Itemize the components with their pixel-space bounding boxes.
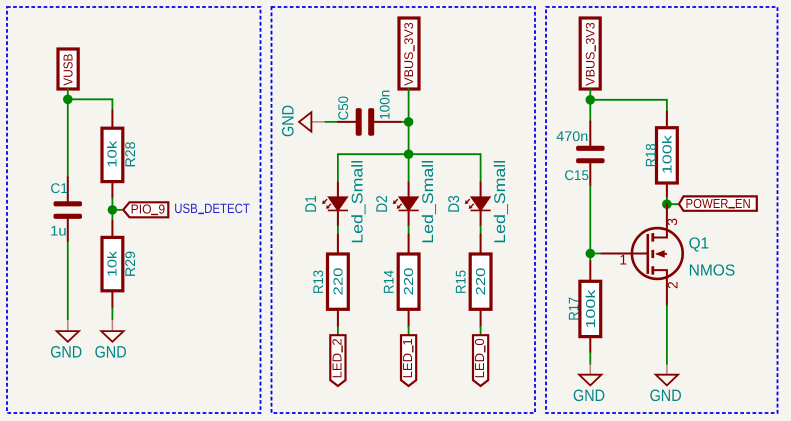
svg-text:R17: R17: [566, 297, 582, 321]
wire VBUS_3V3 down through junctions: [408, 89, 410, 154]
svg-text:R13: R13: [310, 270, 326, 294]
power symbol VBUS_3V3 (middle): [399, 18, 419, 89]
junction C: [404, 117, 414, 127]
capacitor C50: [335, 90, 409, 136]
body connection with arrow: [657, 253, 667, 255]
svg-text:R29: R29: [122, 251, 138, 277]
wire C15 to junction F: [589, 186, 591, 261]
svg-text:POWER_EN: POWER_EN: [686, 196, 751, 211]
hierarchical label POWER_EN: [679, 196, 757, 211]
right dashed group box: [546, 7, 778, 413]
resistor R15: [453, 234, 491, 326]
svg-text:GND: GND: [279, 105, 297, 137]
LED D3: [446, 160, 509, 244]
svg-text:GND: GND: [573, 387, 605, 405]
wire VBUS_3V3 down to C15: [589, 89, 591, 121]
svg-text:VUSB: VUSB: [60, 54, 75, 86]
wire Q1 source to GND: [666, 305, 668, 364]
svg-text:PIO_9: PIO_9: [131, 202, 166, 217]
svg-text:GND: GND: [95, 344, 127, 362]
resistor R14: [381, 234, 419, 326]
left dashed group box: [7, 7, 261, 413]
wire D2 to R14: [408, 226, 410, 234]
svg-text:R28: R28: [122, 141, 138, 167]
wire D1 to R13: [337, 226, 339, 234]
svg-text:USB_DETECT: USB_DETECT: [174, 201, 250, 216]
wire to D2: [408, 154, 410, 182]
wire junction to R28 top: [68, 99, 113, 110]
svg-text:NMOS: NMOS: [689, 262, 736, 279]
LED D2: [374, 160, 437, 244]
svg-text:GND: GND: [650, 387, 682, 405]
junction B: [108, 205, 118, 215]
hierarchical label LED_2: [329, 335, 345, 386]
resistor R17: [566, 261, 601, 352]
svg-text:D2: D2: [374, 195, 391, 213]
ground symbol (under R29): [95, 320, 127, 362]
wire junction F to gate: [590, 253, 600, 255]
svg-text:470n: 470n: [556, 128, 588, 144]
svg-text:220: 220: [473, 268, 488, 296]
wire R14 to LED_1: [408, 327, 410, 336]
wire LED bus: [338, 153, 481, 155]
junction G: [662, 199, 672, 209]
junction F: [586, 249, 596, 259]
svg-text:R14: R14: [381, 270, 397, 294]
resistor R13: [310, 234, 348, 326]
svg-text:220: 220: [331, 268, 346, 296]
svg-text:1: 1: [619, 252, 627, 268]
wire R13 to LED_2: [337, 327, 339, 336]
svg-text:C1: C1: [50, 180, 68, 196]
svg-text:LED_0: LED_0: [472, 338, 487, 378]
capacitor C1: [50, 177, 82, 242]
svg-text:VBUS_3V3: VBUS_3V3: [583, 22, 597, 86]
hierarchical label LED_1: [400, 335, 416, 386]
svg-text:1u: 1u: [50, 223, 66, 239]
svg-text:3: 3: [664, 218, 680, 226]
ground symbol (under Q1 source): [650, 364, 682, 405]
resistor R28: [102, 110, 138, 198]
gate pin: [601, 253, 647, 255]
svg-text:R18: R18: [642, 143, 658, 167]
wire R18 to junction G: [666, 198, 668, 205]
svg-text:R15: R15: [453, 270, 469, 294]
resistor R18: [642, 112, 677, 198]
junction A: [63, 95, 73, 105]
power symbol VBUS_3V3 (right): [580, 18, 600, 89]
svg-text:LED_2: LED_2: [329, 338, 344, 378]
wire R17 to GND: [589, 353, 591, 365]
pin 2 source path: [654, 270, 667, 305]
hierarchical label PIO_9: [123, 202, 168, 218]
wire R15 to LED_0: [480, 327, 482, 336]
svg-text:100n: 100n: [377, 90, 393, 120]
wire junction E to R18: [590, 100, 667, 112]
wire VUSB to junction: [67, 89, 69, 99]
ground symbol (left, under C1): [50, 320, 82, 362]
svg-text:C15: C15: [564, 167, 589, 183]
svg-text:2: 2: [665, 281, 681, 289]
svg-text:D1: D1: [303, 195, 320, 213]
svg-text:Led_Small: Led_Small: [349, 160, 366, 244]
wire stub to POWER_EN: [667, 203, 679, 205]
svg-text:10k: 10k: [105, 250, 120, 277]
svg-text:D3: D3: [446, 195, 463, 213]
channel segments: [651, 233, 654, 242]
wire R29 to GND: [111, 308, 113, 320]
wire C1 top: [67, 99, 69, 177]
wire to D1: [337, 154, 339, 182]
junction E: [586, 95, 596, 105]
svg-text:C50: C50: [335, 96, 351, 121]
svg-text:220: 220: [401, 268, 416, 296]
svg-text:10k: 10k: [105, 140, 120, 168]
pin 3 drain path: [654, 204, 667, 237]
wire C1 to GND: [67, 242, 69, 320]
power symbol VUSB: [58, 49, 78, 89]
svg-text:100k: 100k: [660, 135, 675, 175]
wire stub to PIO_9: [112, 209, 121, 211]
resistor R29: [102, 221, 138, 309]
ground symbol (under R17): [573, 364, 605, 405]
wire D3 to R15: [480, 226, 482, 234]
junction D: [404, 149, 414, 159]
svg-text:100k: 100k: [583, 289, 598, 329]
body circle: [632, 228, 683, 279]
gate bar: [646, 234, 649, 274]
ground symbol (rotated, middle): [279, 105, 325, 137]
svg-text:Led_Small: Led_Small: [420, 160, 437, 244]
wire GND to C50: [325, 121, 338, 123]
wire R28 bottom to junction B to R29: [111, 198, 113, 220]
LED D1: [303, 160, 366, 244]
hierarchical label LED_0: [472, 335, 488, 386]
svg-text:LED_1: LED_1: [400, 338, 415, 378]
transistor Q1 NMOS: [601, 204, 736, 305]
svg-text:Led_Small: Led_Small: [492, 160, 509, 244]
svg-text:Q1: Q1: [689, 235, 710, 252]
wire to D3: [480, 154, 482, 182]
svg-text:GND: GND: [50, 344, 82, 362]
middle dashed group box: [272, 7, 536, 413]
svg-text:VBUS_3V3: VBUS_3V3: [402, 22, 416, 86]
capacitor C15: [556, 121, 604, 186]
